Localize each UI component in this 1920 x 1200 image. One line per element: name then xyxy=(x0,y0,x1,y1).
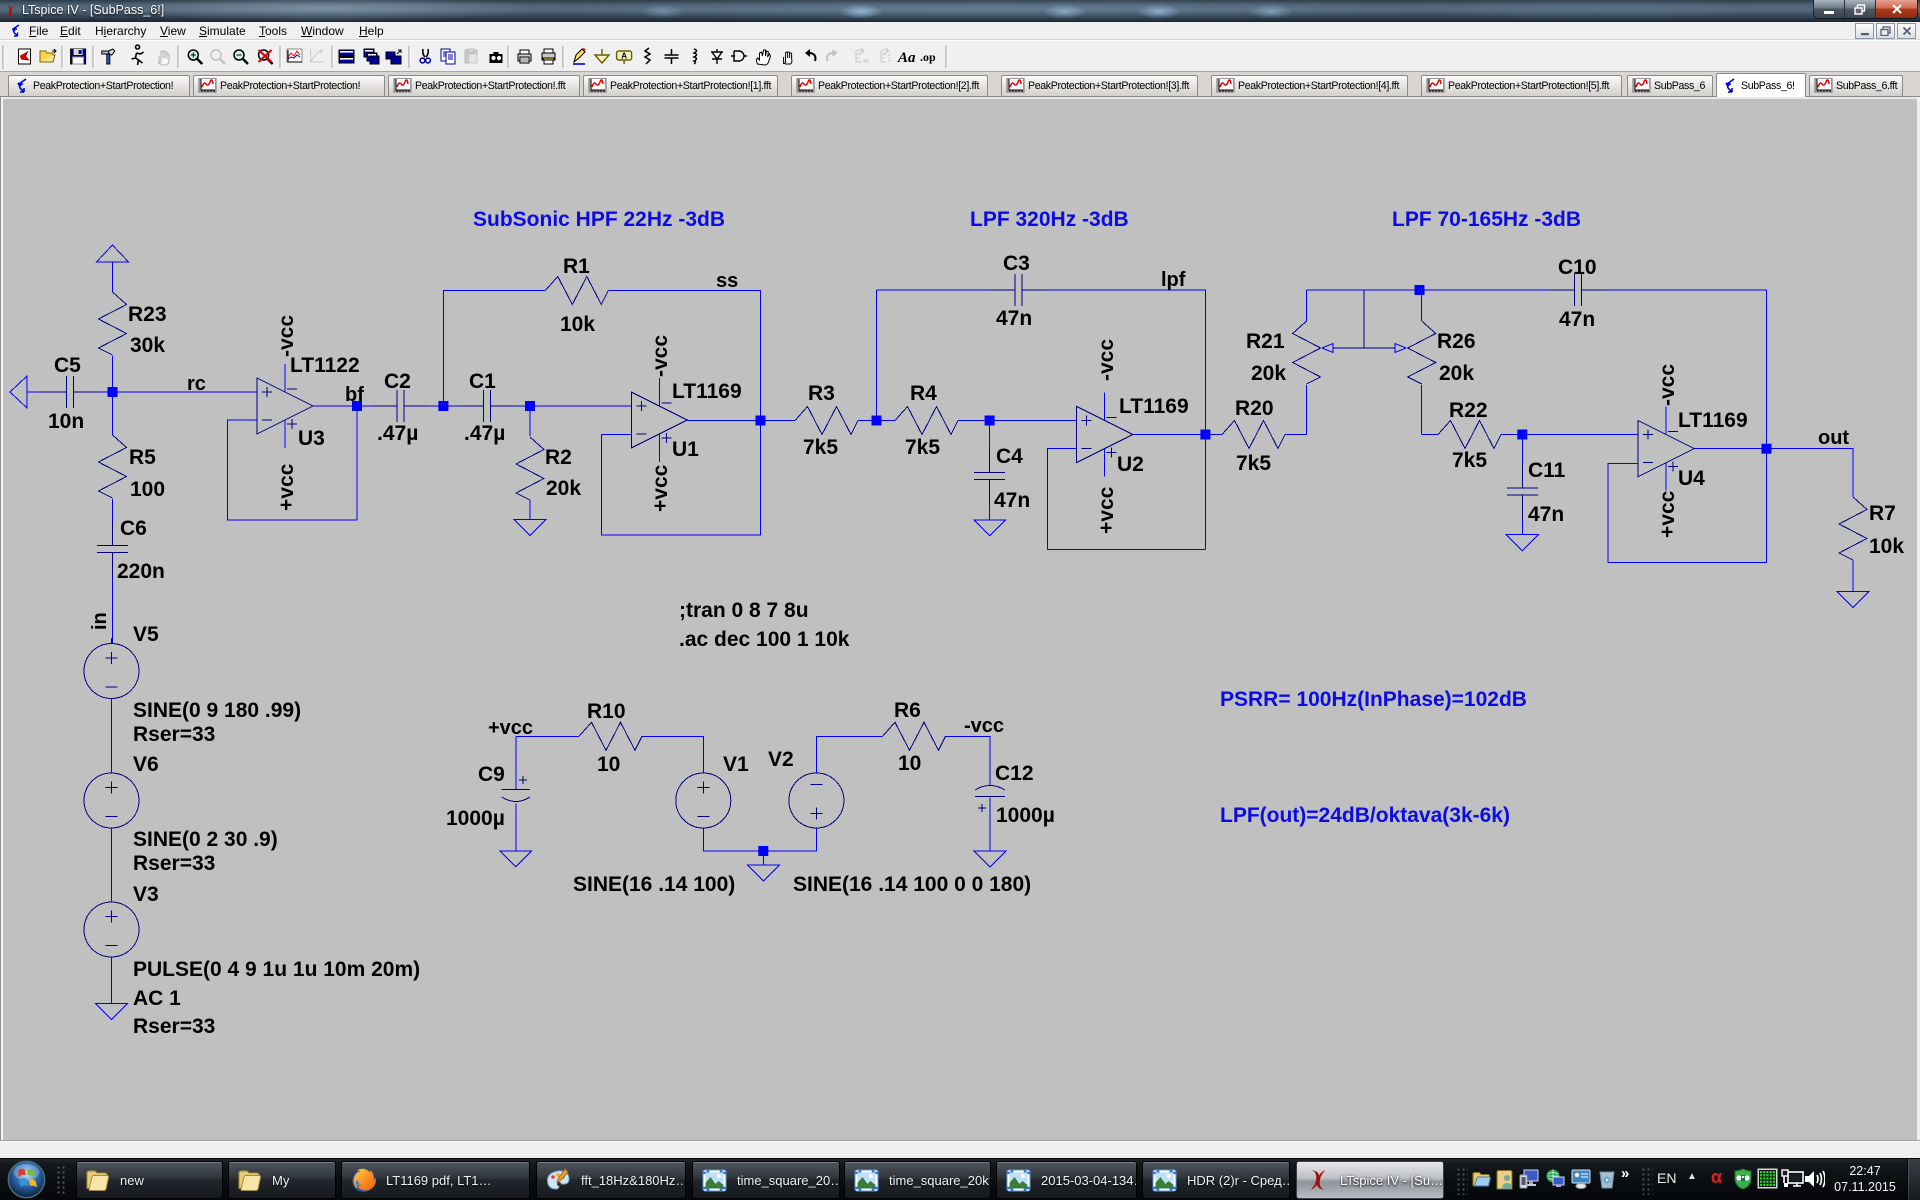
svg-text:10k: 10k xyxy=(1869,535,1904,558)
svg-text:A: A xyxy=(621,52,627,61)
svg-text:C2: C2 xyxy=(384,370,411,393)
menu bar xyxy=(0,22,1920,40)
junction on top wire xyxy=(1415,285,1425,295)
junction between V1 and V2 xyxy=(758,846,768,856)
svg-text:1000µ: 1000µ xyxy=(996,804,1055,827)
resistor R6 xyxy=(883,722,946,750)
svg-text:C9: C9 xyxy=(478,763,505,786)
svg-text:V2: V2 xyxy=(768,748,794,771)
svg-text:U3: U3 xyxy=(298,427,325,450)
svg-text:C6: C6 xyxy=(120,517,147,540)
svg-text:R5: R5 xyxy=(129,446,156,469)
svg-text:PULSE(0 4 9 1u 1u 10m 20m): PULSE(0 4 9 1u 1u 10m 20m) xyxy=(133,958,420,981)
capacitor C6 xyxy=(97,521,128,577)
svg-text:Rser=33: Rser=33 xyxy=(133,723,215,746)
svg-text:C12: C12 xyxy=(995,762,1034,785)
ground below V1/V2 node xyxy=(747,865,779,881)
resistor R4 xyxy=(895,407,958,435)
op-amp U3 LT1122 xyxy=(257,378,313,434)
svg-text:.op: .op xyxy=(920,50,936,64)
svg-text:R10: R10 xyxy=(587,700,626,723)
svg-text:rc: rc xyxy=(187,373,206,395)
svg-text:SINE(16 .14 100 0 0 180): SINE(16 .14 100 0 0 180) xyxy=(793,873,1031,896)
svg-text:R2: R2 xyxy=(545,446,572,469)
svg-text:U1: U1 xyxy=(672,438,699,461)
svg-text:220n: 220n xyxy=(117,560,165,583)
svg-text:C10: C10 xyxy=(1558,256,1597,279)
wire: R5/C6 branch down to V5 xyxy=(112,392,114,644)
wire: V1 V2 bottoms to common ground node xyxy=(703,828,816,865)
svg-text:10n: 10n xyxy=(48,410,84,433)
junction after R4 (C4 node) xyxy=(985,416,995,426)
svg-text:47n: 47n xyxy=(996,307,1032,330)
svg-text:LT1122: LT1122 xyxy=(290,354,360,377)
wire: R21 riser (pot left leg) xyxy=(1306,290,1308,435)
capacitor C2 xyxy=(373,390,429,422)
svg-text:R20: R20 xyxy=(1235,397,1274,420)
svg-text:-vcc: -vcc xyxy=(964,715,1004,737)
svg-text:7k5: 7k5 xyxy=(1236,452,1271,475)
ground below C11 xyxy=(1506,535,1538,551)
svg-text:47n: 47n xyxy=(1559,308,1595,331)
svg-text:lpf: lpf xyxy=(1161,269,1186,291)
capacitor C3 xyxy=(991,274,1047,306)
svg-text:ss: ss xyxy=(716,270,738,292)
svg-text:V6: V6 xyxy=(133,753,159,776)
wire: +vcc rail through R10 down to V1 xyxy=(516,736,704,773)
wire: U4 feedback loop xyxy=(1608,449,1767,563)
ground below R2 xyxy=(514,520,546,536)
svg-text:20k: 20k xyxy=(1251,362,1286,385)
wire: U3 output to bf node and C2 xyxy=(313,405,397,407)
wire: U1 output row through R3 R4 to U2 + input xyxy=(687,420,1077,422)
svg-text:PSRR= 100Hz(InPhase)=102dB: PSRR= 100Hz(InPhase)=102dB xyxy=(1220,688,1527,711)
svg-text:C5: C5 xyxy=(54,354,81,377)
voltage source V6 xyxy=(84,773,139,828)
svg-text:7k5: 7k5 xyxy=(1452,449,1487,472)
svg-text:-vcc: -vcc xyxy=(649,335,672,377)
svg-text:LPF(out)=24dB/oktava(3k-6k): LPF(out)=24dB/oktava(3k-6k) xyxy=(1220,804,1510,827)
svg-text:+vcc: +vcc xyxy=(488,717,533,739)
voltage source V5 xyxy=(84,644,139,699)
svg-text:R6: R6 xyxy=(894,699,921,722)
svg-text:V1: V1 xyxy=(723,753,749,776)
resistor R2 xyxy=(516,437,544,500)
svg-text:Rser=33: Rser=33 xyxy=(133,1015,215,1038)
R26 wiper arrow xyxy=(1395,344,1406,353)
ground below C9 xyxy=(500,851,532,867)
svg-text:100: 100 xyxy=(130,478,165,501)
status bar xyxy=(0,1141,1920,1158)
wire: U4 output to out node and R7 xyxy=(1693,449,1853,592)
svg-text:10: 10 xyxy=(597,753,620,776)
resistor R3 xyxy=(795,407,858,435)
capacitor C10 xyxy=(1550,274,1606,306)
junction at C5/R23/R5 node xyxy=(108,387,118,397)
svg-text:SubSonic HPF 22Hz -3dB: SubSonic HPF 22Hz -3dB xyxy=(473,208,725,231)
capacitor C11 xyxy=(1507,464,1538,520)
svg-text:C3: C3 xyxy=(1003,252,1030,275)
tab bar xyxy=(0,72,1920,97)
wire: input row from port through C5 junction to U3 + input xyxy=(27,391,257,393)
pot wiper link line xyxy=(1333,290,1395,348)
svg-text:-vcc: -vcc xyxy=(1656,364,1679,406)
svg-text:+vcc: +vcc xyxy=(1656,490,1679,538)
svg-text:SINE(0 2 30 .9): SINE(0 2 30 .9) xyxy=(133,828,278,851)
window buttons xyxy=(1814,0,1917,18)
svg-text:.47µ: .47µ xyxy=(464,422,505,445)
resistor R10 xyxy=(579,722,642,750)
resistor R22 xyxy=(1438,421,1501,449)
resistor R5 xyxy=(99,435,127,498)
LTspice logo xyxy=(2,3,19,24)
resistor R7 xyxy=(1839,497,1867,560)
svg-text:C1: C1 xyxy=(469,370,496,393)
svg-text:V5: V5 xyxy=(133,623,159,646)
input port flag (left arrow) xyxy=(10,376,27,408)
wire: C12 to ground xyxy=(989,798,991,851)
ground below V3 xyxy=(96,1004,128,1020)
svg-text:+vcc: +vcc xyxy=(649,464,672,512)
svg-text:U2: U2 xyxy=(1117,453,1144,476)
svg-text:LPF 70-165Hz -3dB: LPF 70-165Hz -3dB xyxy=(1392,208,1581,231)
taskbar xyxy=(0,1158,1920,1200)
svg-text:1000µ: 1000µ xyxy=(446,807,505,830)
svg-text:LT1169: LT1169 xyxy=(1119,395,1189,418)
wire: R1 feedback riser and top run to ss corner xyxy=(443,291,760,421)
op-amp U2 LT1169 xyxy=(1077,407,1133,463)
svg-text:47n: 47n xyxy=(1528,503,1564,526)
wire: C9 branch xyxy=(515,736,517,851)
svg-text:R21: R21 xyxy=(1246,330,1285,353)
svg-text:.ac dec 100 1 10k: .ac dec 100 1 10k xyxy=(679,628,850,651)
voltage source V2 (flipped) xyxy=(789,773,844,828)
junction after C1 xyxy=(525,401,535,411)
junction between C2 and C1 xyxy=(438,401,448,411)
R21 wiper arrow xyxy=(1322,344,1333,353)
capacitor C12 (polarized, flipped) xyxy=(975,786,1005,797)
wire: R26 leg vertical xyxy=(1421,290,1423,435)
power flag above R23 xyxy=(97,245,129,262)
svg-text:;tran 0 8 7 8u: ;tran 0 8 7 8u xyxy=(679,599,809,622)
svg-text:10: 10 xyxy=(898,752,921,775)
junction between R3 and R4 xyxy=(872,416,882,426)
svg-text:in: in xyxy=(89,612,111,630)
junction bf at U3 output xyxy=(352,401,362,411)
wire: U2 output row to R20 xyxy=(1133,434,1307,436)
svg-text:LT1169: LT1169 xyxy=(1678,409,1748,432)
svg-text:C11: C11 xyxy=(1528,459,1566,482)
wire: C2 to C1 row with mid node xyxy=(405,405,632,407)
svg-text:R4: R4 xyxy=(910,382,937,405)
svg-text:7k5: 7k5 xyxy=(905,436,940,459)
wire: R23 branch vertical xyxy=(112,262,114,392)
resistor R20 xyxy=(1222,421,1285,449)
resistor R1 xyxy=(545,277,608,305)
svg-text:R22: R22 xyxy=(1449,399,1488,422)
ground below C12 xyxy=(974,851,1006,867)
window title bar xyxy=(0,0,1920,22)
svg-text:47n: 47n xyxy=(994,489,1030,512)
wire: U3 feedback loop xyxy=(228,406,358,520)
potentiometer R21 (left half) xyxy=(1293,321,1321,384)
svg-text:20k: 20k xyxy=(546,477,581,500)
svg-text:Aa: Aa xyxy=(897,50,916,66)
voltage source V1 xyxy=(676,773,731,828)
op-amp U1 LT1169 xyxy=(631,392,687,448)
capacitor C4 xyxy=(974,448,1005,504)
op-amp U4 LT1169 xyxy=(1638,421,1694,477)
svg-text:out: out xyxy=(1818,427,1849,449)
svg-text:+vcc: +vcc xyxy=(275,463,298,511)
wire: top run LPF3 from R21 corner to right corner xyxy=(1307,290,1767,449)
svg-text:SINE(16 .14 100): SINE(16 .14 100) xyxy=(573,873,735,896)
wire: C3 riser from R3/R4 node xyxy=(876,290,878,421)
svg-text:R23: R23 xyxy=(128,303,167,326)
capacitor C9 (polarized) xyxy=(502,790,530,802)
svg-text:U4: U4 xyxy=(1678,467,1705,490)
wire: C11 branch to ground xyxy=(1521,435,1523,535)
svg-text:C4: C4 xyxy=(996,445,1023,468)
wire: V5-V6-V3 chain and to ground xyxy=(111,699,113,1004)
window inner borders around schematic xyxy=(0,97,1,1141)
toolbar xyxy=(0,40,1920,72)
svg-text:20k: 20k xyxy=(1439,362,1474,385)
svg-text:-vcc: -vcc xyxy=(1095,339,1118,381)
svg-text:R1: R1 xyxy=(563,255,590,278)
svg-text:R7: R7 xyxy=(1869,502,1896,525)
svg-text:SINE(0 9 180 .99): SINE(0 9 180 .99) xyxy=(133,699,301,722)
svg-text:+vcc: +vcc xyxy=(1095,486,1118,534)
svg-text:V3: V3 xyxy=(133,883,159,906)
svg-text:7k5: 7k5 xyxy=(803,436,838,459)
svg-text:LT1169: LT1169 xyxy=(672,380,742,403)
ground below C4 xyxy=(974,520,1006,536)
junction at U1 output / ss riser xyxy=(756,416,766,426)
junction at U4 output xyxy=(1762,444,1772,454)
junction after R22 (C11 node) xyxy=(1517,430,1527,440)
svg-text:R3: R3 xyxy=(808,382,835,405)
svg-text:R26: R26 xyxy=(1437,330,1476,353)
wire: R2 branch to ground xyxy=(529,406,531,520)
wire: U1 feedback loop xyxy=(602,421,761,536)
potentiometer R26 (right half) xyxy=(1408,321,1436,384)
ground below R7 xyxy=(1837,592,1869,608)
svg-text:-vcc: -vcc xyxy=(275,315,298,357)
wire: C4 branch to ground xyxy=(989,421,991,520)
wire: V2 top through R6 to -vcc / C12 xyxy=(816,736,990,785)
resistor R23 xyxy=(99,292,127,355)
svg-text:.47µ: .47µ xyxy=(377,422,418,445)
svg-text:Rser=33: Rser=33 xyxy=(133,852,215,875)
wire: U2 feedback loop bottom xyxy=(1048,449,1206,550)
capacitor C5 xyxy=(42,376,98,408)
wire: C3 top row to lpf corner, down right side of U2 xyxy=(877,290,1206,550)
svg-text:LPF 320Hz -3dB: LPF 320Hz -3dB xyxy=(970,208,1129,231)
svg-text:30k: 30k xyxy=(130,334,165,357)
svg-text:10k: 10k xyxy=(560,313,595,336)
voltage source V3 xyxy=(84,902,139,957)
capacitor C1 xyxy=(459,390,515,422)
svg-text:AC 1: AC 1 xyxy=(133,987,181,1010)
junction at U2 output xyxy=(1200,430,1210,440)
wire: R22 row to C11 node to U4 + input xyxy=(1422,434,1639,436)
